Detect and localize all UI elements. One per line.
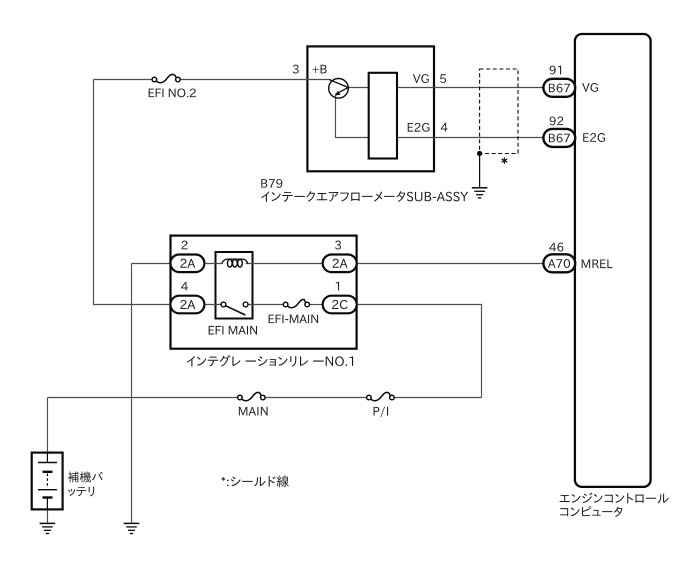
wire left drop to relay pin 4 [94, 80, 172, 305]
shield dashed box [480, 69, 518, 154]
label "B67 (91)" [549, 84, 570, 93]
label "pin 4 (relay)" [181, 282, 188, 291]
label "pin 1 (relay)" [336, 282, 339, 291]
label "ECU name line2" [560, 506, 622, 517]
label "pin 3" [293, 65, 299, 74]
label "2A (pin2)" [180, 259, 195, 268]
connector B67 pin 92 oval [543, 129, 575, 147]
label "A70 (46)" [548, 259, 570, 268]
label "MREL" [582, 260, 613, 269]
label "air flow meter name" [261, 191, 468, 202]
label "pin 4" [441, 123, 448, 132]
battery plate short 1 [43, 471, 53, 473]
battery plate long 2 [38, 489, 57, 491]
label "pin 91" [550, 66, 561, 75]
relay coil ground (x=131) [124, 522, 140, 524]
connector A70 pin 46 oval [543, 254, 575, 272]
label "battery name line1" [68, 472, 103, 483]
relay pin 2 oval (2A) [170, 255, 204, 273]
relay coil box [216, 252, 253, 319]
label "battery name line2" [68, 487, 94, 497]
label "EFI-MAIN" [269, 315, 318, 324]
shield junction dot [477, 151, 482, 156]
label "2C (pin1)" [332, 300, 348, 309]
battery ground [40, 522, 56, 524]
label "pin 46" [549, 243, 563, 252]
label "pin 2" [182, 241, 188, 250]
battery plate long 1 [38, 462, 57, 464]
wire relay pin 1 down to bottom bus [356, 305, 482, 398]
relay coil [222, 259, 248, 264]
wire transistor emitter to sensing element (E2G row) [336, 95, 369, 137]
wire MREL: relay pin 3 to ECU A70-46 [356, 263, 545, 265]
fuse EFI NO.2 [152, 77, 157, 82]
wire bus down to battery [47, 398, 49, 453]
wire bottom bus segment 3 [394, 397, 481, 399]
wire E2G: B79 pin 4 to ECU B67-92 [397, 137, 545, 139]
wire bottom bus segment 1 [48, 397, 238, 399]
fuse MAIN [238, 395, 243, 400]
B79 air flow meter box [307, 46, 434, 171]
ECU box (engine control computer) [575, 34, 651, 487]
battery dashed center link [46, 474, 48, 489]
connector B67 pin 91 oval [543, 79, 575, 97]
label "shield legend" [221, 475, 288, 487]
label "MAIN" [239, 407, 268, 416]
relay switch contacts [221, 302, 226, 307]
label "pin 3 (relay)" [335, 241, 341, 250]
label "pin 5" [440, 74, 446, 83]
label "P/I" [374, 407, 389, 418]
wire ground drop x=131 [131, 264, 133, 524]
wire switch to EFI-MAIN fuse [248, 304, 283, 306]
wire battery feed to EFI NO.2 fuse [94, 79, 153, 81]
battery plate short 2 [43, 496, 53, 498]
fuse EFI-MAIN [283, 302, 288, 307]
label "EFI NO.2" [149, 88, 196, 97]
label "pin 92" [550, 116, 564, 125]
label "ECU name line1" [560, 493, 669, 504]
wire VG: B79 pin 5 to ECU B67-91 [397, 87, 545, 89]
label "E2G (ECU)" [583, 133, 605, 142]
shield ground wire [479, 154, 481, 188]
battery internal top lead [46, 453, 48, 463]
wire relay pin 2 to ground drop [132, 263, 172, 265]
relay pin 3 oval (2A) [323, 255, 357, 273]
wire bottom bus segment 2 [265, 397, 367, 399]
label "relay name" [187, 355, 354, 367]
transistor Q1 in air flow meter [329, 79, 349, 99]
label "E2G (B79)" [408, 123, 430, 132]
relay pin 4 oval (2A) [170, 296, 204, 314]
battery box [32, 453, 63, 510]
shield ground [472, 187, 488, 189]
wire EFI NO.2 fuse to B79 pin 3 [180, 79, 331, 81]
battery internal bottom lead [46, 498, 48, 510]
sensing element (resistor) in air flow meter [369, 73, 397, 159]
label "+B" [313, 65, 327, 74]
label "B67 (92)" [549, 134, 570, 143]
wire relay pin 4 oval to switch [204, 304, 221, 306]
relay switch blade [225, 306, 245, 315]
label "VG (ECU)" [582, 83, 598, 92]
label "2A (pin3)" [333, 259, 348, 268]
wire EFI-MAIN fuse to relay pin 1 oval [309, 304, 323, 306]
wire transistor to sensing element (VG row) [349, 87, 369, 89]
label "2A (pin4)" [180, 300, 195, 309]
wire battery to ground [47, 509, 49, 523]
fuse P/I [367, 395, 372, 400]
wire coil to relay pin 3 oval [246, 263, 323, 265]
label "EFI MAIN" [209, 326, 257, 335]
relay pin 1 oval (2C) [323, 296, 357, 314]
wire relay pin 2 oval to coil [204, 263, 222, 265]
label "*" shield marker [502, 157, 508, 163]
relay box (integration relay NO.1) [171, 236, 357, 349]
label "B79" [261, 179, 282, 188]
label "VG (B79)" [413, 74, 429, 83]
